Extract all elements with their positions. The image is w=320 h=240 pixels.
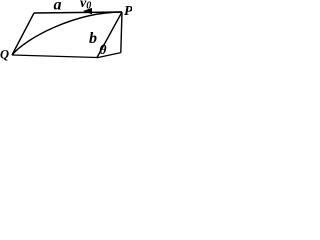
- svg-text:θ: θ: [99, 43, 107, 58]
- svg-text:b: b: [89, 30, 97, 47]
- wire incline base B-C: [97, 53, 121, 58]
- wire ground line Q-B: [12, 55, 97, 58]
- wire left edge A-Q: [12, 13, 34, 55]
- svg-text:P: P: [124, 4, 132, 19]
- wire vertical edge P-C: [121, 12, 122, 53]
- wire top edge A-P (length a): [34, 12, 122, 13]
- trajectory curve Q to P: [12, 12, 122, 55]
- svg-text:a: a: [54, 0, 62, 13]
- arrowhead of velocity v0 pointing left: [83, 8, 92, 14]
- svg-text:Q: Q: [0, 48, 9, 62]
- wire incline hypotenuse P-B (length b): [97, 12, 122, 58]
- svg-text:v0: v0: [80, 0, 91, 11]
